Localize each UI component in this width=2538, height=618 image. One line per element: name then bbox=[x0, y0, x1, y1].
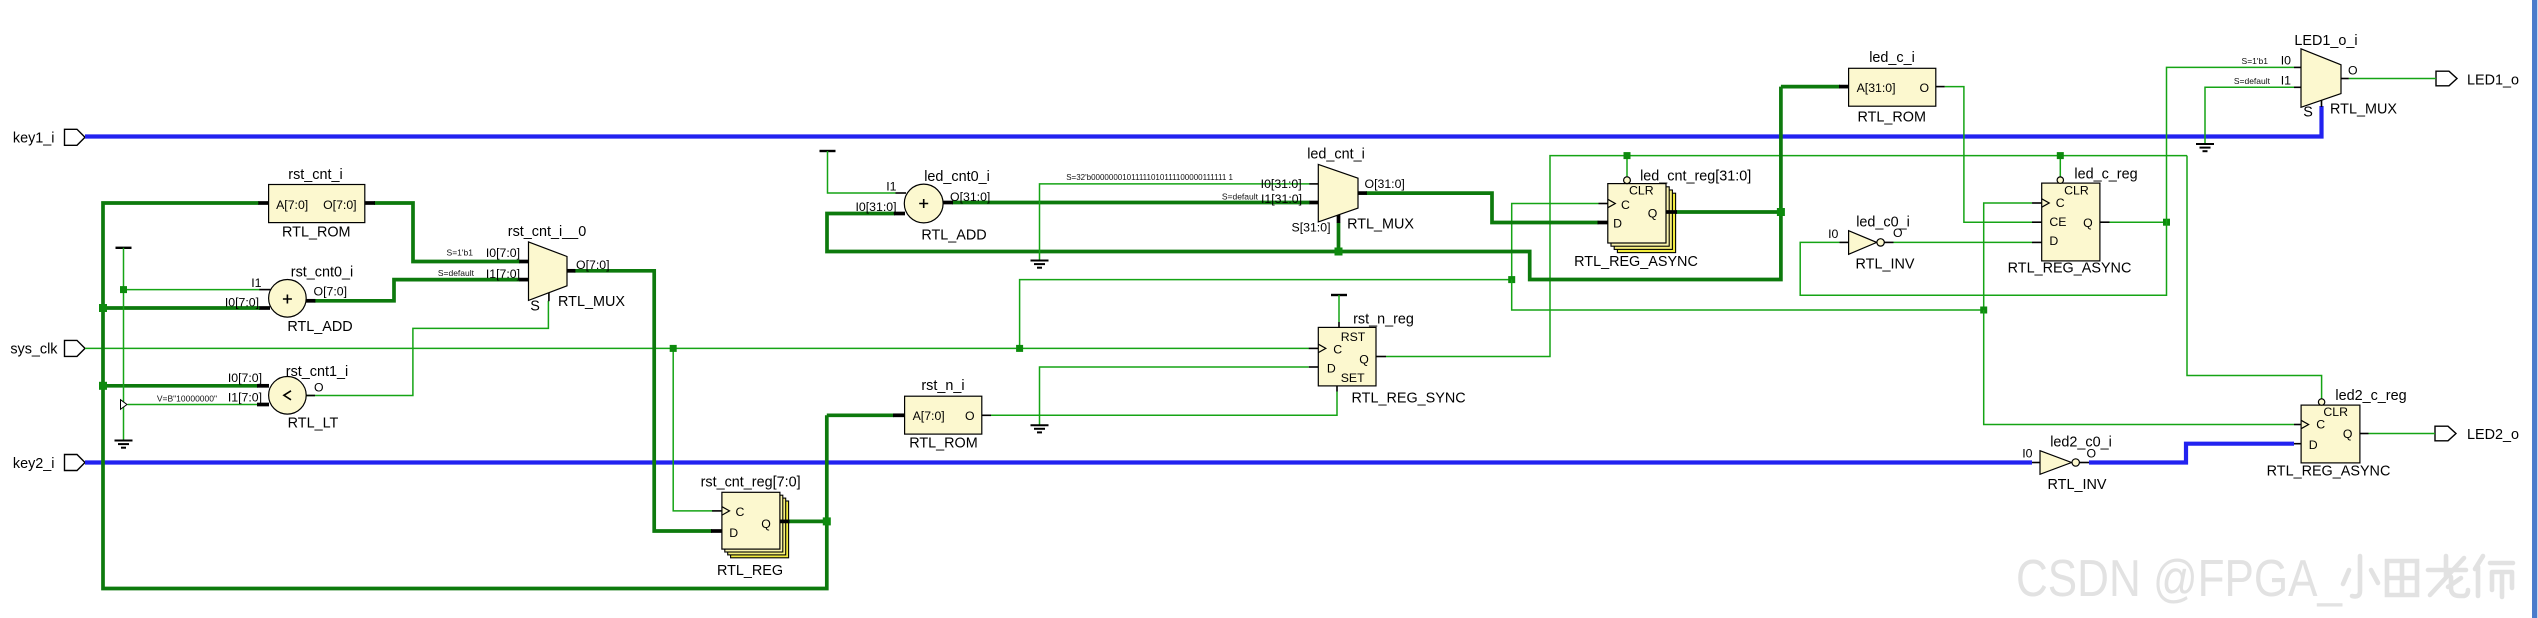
svg-text:CLR: CLR bbox=[2323, 405, 2348, 419]
input port sys_clk bbox=[10, 340, 85, 357]
register led2_c_reg bbox=[2267, 388, 2407, 480]
wire led_cnt to led_cnt_i mux S bbox=[1337, 223, 1341, 252]
svg-text:RTL_MUX: RTL_MUX bbox=[1347, 217, 1414, 233]
wire rst_cnt_i__0 mux O to rst_cnt_reg D bbox=[575, 271, 713, 531]
svg-text:I0[31:0]: I0[31:0] bbox=[855, 200, 896, 214]
wire led_cnt_i mux O to led_cnt_reg D bbox=[1366, 193, 1599, 222]
svg-text:I0[7:0]: I0[7:0] bbox=[486, 246, 520, 260]
wire led_cnt feedback from led_cnt_reg Q bbox=[827, 87, 1781, 280]
comparator rst_cnt1_i pin stubs bbox=[257, 386, 315, 405]
svg-text:O: O bbox=[1893, 226, 1903, 240]
wire led2_c_reg Q to LED2_o port bbox=[2369, 433, 2436, 435]
svg-text:I1[7:0]: I1[7:0] bbox=[228, 390, 262, 404]
svg-text:key1_i: key1_i bbox=[13, 131, 55, 147]
junction rst_cnt Q bbox=[823, 517, 831, 525]
register rst_cnt_reg[7:0] pin stubs bbox=[711, 511, 790, 531]
wire rst_cnt to rst_cnt1_i I0 bbox=[103, 384, 258, 388]
svg-text:O: O bbox=[314, 381, 324, 395]
adder led_cnt0_i pin stubs bbox=[894, 193, 953, 214]
svg-text:led_c_reg: led_c_reg bbox=[2074, 167, 2137, 183]
svg-text:D: D bbox=[729, 526, 738, 540]
wire constant column to ground bbox=[123, 248, 125, 440]
svg-text:rst_cnt_i__0: rst_cnt_i__0 bbox=[508, 224, 586, 240]
ROM rst_n_i bbox=[905, 378, 982, 452]
svg-text:I1: I1 bbox=[2281, 74, 2291, 88]
adder rst_cnt0_i pin stubs bbox=[259, 290, 315, 308]
svg-text:RTL_MUX: RTL_MUX bbox=[558, 294, 625, 310]
svg-text:O[7:0]: O[7:0] bbox=[323, 198, 357, 212]
svg-text:rst_n_i: rst_n_i bbox=[921, 378, 964, 394]
ground for rst_n_reg D bbox=[1031, 425, 1049, 432]
svg-text:O: O bbox=[2348, 64, 2358, 78]
wire led_c feedback to inverter bbox=[1800, 222, 2166, 295]
wire sys_clk branch to rst_cnt_reg C bbox=[673, 348, 712, 511]
register rst_n_reg pin stubs bbox=[1309, 322, 1386, 392]
svg-text:S: S bbox=[2303, 105, 2313, 121]
ROM rst_n_i pin stubs bbox=[893, 413, 991, 417]
svg-text:rst_cnt1_i: rst_cnt1_i bbox=[286, 364, 348, 380]
svg-text:S: S bbox=[530, 299, 540, 315]
register rst_n_reg bbox=[1318, 312, 1465, 407]
svg-text:rst_cnt0_i: rst_cnt0_i bbox=[291, 265, 353, 281]
adder led_cnt0_i bbox=[855, 169, 990, 244]
adder rst_cnt0_i bbox=[225, 265, 353, 336]
junction CLR at led_cnt_reg bbox=[1624, 152, 1631, 159]
svg-text:rst_cnt_i: rst_cnt_i bbox=[288, 167, 342, 183]
junction rst_cnt at adder bbox=[99, 304, 107, 312]
wire ground constant to led_cnt_i mux I0 bbox=[1040, 184, 1311, 260]
svg-text:O[7:0]: O[7:0] bbox=[314, 285, 348, 299]
svg-text:D: D bbox=[1613, 217, 1622, 231]
svg-text:RTL_REG_ASYNC: RTL_REG_ASYNC bbox=[2008, 260, 2132, 276]
wire led_c to LED1_o_i mux I0 bbox=[2167, 67, 2295, 222]
wire rst_n_reg Q to CLR distribution bbox=[1386, 156, 2187, 357]
register led_cnt_reg[31:0] pin stubs bbox=[1598, 204, 1678, 223]
svg-text:I0: I0 bbox=[1828, 227, 1838, 241]
svg-text:C: C bbox=[736, 505, 745, 519]
svg-text:C: C bbox=[2316, 418, 2325, 432]
svg-text:RTL_MUX: RTL_MUX bbox=[2330, 102, 2397, 118]
svg-text:S=1'b1: S=1'b1 bbox=[2242, 56, 2269, 66]
svg-text:RTL_ROM: RTL_ROM bbox=[1857, 110, 1926, 126]
wire rst_cnt_i ROM O to mux I0 bbox=[374, 203, 520, 262]
svg-text:RTL_REG_SYNC: RTL_REG_SYNC bbox=[1352, 391, 1466, 407]
svg-text:Q: Q bbox=[1648, 207, 1658, 221]
wire constant 1 to rst_cnt0_i I1 bbox=[124, 289, 261, 291]
svg-text:RTL_ROM: RTL_ROM bbox=[282, 224, 351, 240]
wire rst_cnt to rst_cnt0_i I0 bbox=[103, 306, 260, 310]
svg-text:RTL_INV: RTL_INV bbox=[1856, 257, 1915, 273]
svg-text:rst_cnt_reg[7:0]: rst_cnt_reg[7:0] bbox=[701, 475, 801, 491]
junction rst_cnt at comparator bbox=[99, 382, 107, 390]
wire ground constant to LED1_o_i mux I1 bbox=[2205, 87, 2294, 143]
inverter led2_c0_i pin stubs bbox=[2032, 462, 2089, 464]
svg-text:S=32'b000000010111110101111000: S=32'b00000001011111010111100000111111 1 bbox=[1066, 173, 1233, 182]
wire CLR to led_cnt_reg bbox=[1626, 156, 1628, 177]
svg-text:key2_i: key2_i bbox=[13, 456, 55, 472]
svg-text:A[7:0]: A[7:0] bbox=[913, 409, 945, 423]
svg-text:CE: CE bbox=[2049, 215, 2066, 229]
svg-text:I1: I1 bbox=[251, 276, 261, 290]
mux rst_cnt_i__0 bbox=[438, 224, 626, 315]
svg-text:RTL_ADD: RTL_ADD bbox=[921, 228, 986, 244]
svg-text:sys_clk: sys_clk bbox=[10, 342, 58, 358]
svg-text:C: C bbox=[1621, 198, 1630, 212]
svg-text:RTL_ROM: RTL_ROM bbox=[909, 436, 978, 452]
svg-text:O[7:0]: O[7:0] bbox=[576, 258, 610, 272]
svg-text:D: D bbox=[2049, 234, 2058, 248]
svg-text:O: O bbox=[2087, 446, 2097, 460]
wire sys_clk to led_c_reg C bbox=[1984, 203, 2032, 310]
ROM led_c_i bbox=[1849, 50, 1936, 126]
wire rst_cnt1_i O to rst_cnt_i__0 mux S bbox=[306, 301, 548, 396]
input port key2_i bbox=[13, 455, 85, 473]
wire led_c_i O to led_c_reg CE bbox=[1945, 87, 2032, 223]
wire led_c0 inverter output to led_c_reg D bbox=[1894, 241, 2033, 243]
ROM rst_cnt_i bbox=[269, 167, 365, 240]
wire CLR to led2_c_reg bbox=[2187, 156, 2322, 399]
wire led_cnt0_i O to led_cnt_i mux I1 bbox=[952, 201, 1310, 205]
wire sys_clk horizontal bbox=[85, 347, 1309, 349]
mux rst_cnt_i__0 pin stubs bbox=[519, 262, 575, 302]
junction led_cnt at mux select bbox=[1335, 248, 1343, 256]
inverter led_c0_i pin stubs bbox=[1840, 241, 1894, 243]
svg-text:Q: Q bbox=[1359, 353, 1369, 367]
svg-text:I0[31:0]: I0[31:0] bbox=[1261, 177, 1302, 191]
svg-text:I1[31:0]: I1[31:0] bbox=[1261, 192, 1302, 206]
constant value marker V=B"10000000" bbox=[121, 400, 128, 410]
watermark CSDN @FPGA_xiaotianlaoshi bbox=[2016, 550, 2513, 608]
junction sys_clk at rst_cnt_reg branch bbox=[670, 345, 677, 352]
svg-text:led2_c0_i: led2_c0_i bbox=[2050, 435, 2112, 451]
svg-text:I0[7:0]: I0[7:0] bbox=[225, 295, 259, 309]
svg-text:led_cnt_reg[31:0]: led_cnt_reg[31:0] bbox=[1640, 169, 1751, 185]
svg-text:led_c_i: led_c_i bbox=[1869, 50, 1915, 66]
right border bar bbox=[2532, 0, 2537, 618]
svg-text:O: O bbox=[965, 409, 975, 423]
ground for rst constant column bbox=[115, 441, 133, 448]
svg-text:D: D bbox=[1327, 362, 1336, 376]
svg-text:RTL_REG: RTL_REG bbox=[717, 563, 783, 579]
svg-text:Q: Q bbox=[761, 517, 771, 531]
svg-text:RST: RST bbox=[1341, 330, 1366, 344]
svg-text:rst_n_reg: rst_n_reg bbox=[1353, 312, 1414, 328]
junction led_cnt Q bbox=[1777, 208, 1785, 216]
junction sys_clk at rst_n_reg branch bbox=[1016, 345, 1023, 352]
wire led2_c0 (blue) INV output to led2_c_reg D bbox=[2089, 444, 2294, 463]
svg-text:CLR: CLR bbox=[2064, 184, 2089, 198]
svg-text:O[31:0]: O[31:0] bbox=[950, 190, 990, 204]
junction sys_clk distribution bbox=[1508, 276, 1515, 283]
svg-text:O: O bbox=[1920, 81, 1930, 95]
svg-text:S=default: S=default bbox=[2234, 76, 2271, 86]
register rst_cnt_reg[7:0] bbox=[701, 475, 801, 580]
vcc tie T-bar for rst constants bbox=[116, 247, 132, 249]
svg-text:D: D bbox=[2309, 438, 2318, 452]
svg-text:led2_c_reg: led2_c_reg bbox=[2335, 388, 2406, 404]
svg-text:A[31:0]: A[31:0] bbox=[1857, 81, 1896, 95]
wire sys_clk riser to upper distribution bbox=[1020, 280, 1512, 349]
ground for LED1_o_i mux I1 bbox=[2196, 144, 2214, 151]
inverter led_c0_i bbox=[1828, 215, 1915, 273]
input port key1_i bbox=[13, 129, 85, 146]
register led_c_reg pin stubs bbox=[2032, 203, 2110, 242]
wire rst_n_i O to rst_n_reg SET bbox=[991, 392, 1337, 416]
svg-text:I1[7:0]: I1[7:0] bbox=[486, 267, 520, 281]
svg-text:RTL_REG_ASYNC: RTL_REG_ASYNC bbox=[2267, 464, 2391, 480]
vcc tie T-bar for led_cnt0_i I1 bbox=[820, 150, 836, 152]
svg-text:O[31:0]: O[31:0] bbox=[1365, 177, 1405, 191]
ground for led_cnt_i mux I0 bbox=[1031, 261, 1049, 268]
svg-text:Q: Q bbox=[2343, 427, 2353, 441]
mux led_cnt_i bbox=[1066, 147, 1414, 235]
svg-text:A[7:0]: A[7:0] bbox=[276, 198, 308, 212]
vcc tie T-bar for rst_n_reg RST bbox=[1331, 295, 1347, 322]
wire rst_cnt to rst_n_i A bbox=[827, 413, 894, 417]
svg-text:RTL_ADD: RTL_ADD bbox=[287, 319, 352, 335]
wire CLR to led_c_reg bbox=[2059, 156, 2061, 177]
svg-text:CLR: CLR bbox=[1629, 184, 1654, 198]
svg-text:C: C bbox=[1333, 343, 1342, 357]
svg-text:RTL_LT: RTL_LT bbox=[288, 416, 339, 432]
wire sys_clk lower distribution bbox=[1512, 280, 1984, 310]
svg-text:V=B"10000000": V=B"10000000" bbox=[157, 394, 217, 404]
svg-text:SET: SET bbox=[1341, 371, 1365, 385]
wire LED1_o_i mux O to output port bbox=[2349, 78, 2436, 80]
wire key2_i (blue) to led2_c0_i input bbox=[85, 460, 2032, 464]
register led_cnt_reg[31:0] bbox=[1574, 169, 1751, 271]
ROM led_c_i pin stubs bbox=[1839, 85, 1945, 89]
wire constant 1 to led_cnt0_i I1 bbox=[828, 151, 896, 193]
svg-text:I0[7:0]: I0[7:0] bbox=[228, 371, 262, 385]
junction CLR at led_c_reg bbox=[2057, 152, 2064, 159]
svg-text:LED2_o: LED2_o bbox=[2467, 427, 2519, 443]
wire constant to rst_cnt1_i I1 bbox=[128, 404, 259, 406]
output port LED1_o bbox=[2436, 71, 2519, 88]
svg-text:Q: Q bbox=[2083, 216, 2093, 230]
svg-text:I1: I1 bbox=[886, 180, 896, 194]
svg-text:S=default: S=default bbox=[1222, 192, 1259, 202]
wire key1_i (blue) to LED1_o_i mux S bbox=[85, 106, 2322, 137]
svg-text:I0: I0 bbox=[2022, 447, 2032, 461]
svg-text:S=1'b1: S=1'b1 bbox=[447, 248, 474, 258]
svg-text:S[31:0]: S[31:0] bbox=[1292, 221, 1331, 235]
mux LED1_o_i pin stubs bbox=[2294, 67, 2349, 107]
svg-text:led_cnt0_i: led_cnt0_i bbox=[924, 169, 990, 185]
wire led_c from led_c_reg Q bbox=[2110, 221, 2167, 223]
comparator rst_cnt1_i bbox=[157, 364, 348, 432]
wire sys_clk to led2_c_reg C bbox=[1984, 310, 2294, 425]
mux led_cnt_i pin stubs bbox=[1309, 184, 1367, 223]
wire rst_n_reg D tied low bbox=[1040, 367, 1309, 425]
junction led_c at Q bbox=[2163, 219, 2170, 226]
wire rst_cnt_reg Q feedback loop bbox=[103, 203, 827, 589]
svg-text:CSDN @FPGA_: CSDN @FPGA_ bbox=[2016, 550, 2343, 608]
svg-text:S=default: S=default bbox=[438, 268, 475, 278]
register led_c_reg bbox=[2008, 167, 2138, 277]
junction constant at adder I1 bbox=[120, 286, 127, 293]
svg-text:RTL_INV: RTL_INV bbox=[2048, 477, 2107, 493]
svg-text:I0: I0 bbox=[2281, 54, 2291, 68]
svg-text:LED1_o_i: LED1_o_i bbox=[2294, 33, 2357, 49]
wire rst_cnt0_i O to mux I1 bbox=[315, 280, 521, 301]
wire sys_clk to led_cnt_reg C bbox=[1512, 204, 1599, 280]
svg-text:LED1_o: LED1_o bbox=[2467, 73, 2519, 89]
register led2_c_reg pin stubs bbox=[2294, 425, 2369, 444]
output port LED2_o bbox=[2435, 426, 2519, 443]
inverter led2_c0_i bbox=[2022, 435, 2112, 494]
svg-text:led_cnt_i: led_cnt_i bbox=[1307, 147, 1365, 163]
svg-text:RTL_REG_ASYNC: RTL_REG_ASYNC bbox=[1574, 254, 1698, 270]
wire led_cnt to led_c_i A bbox=[1781, 85, 1840, 89]
svg-text:C: C bbox=[2056, 196, 2065, 210]
mux LED1_o_i bbox=[2234, 33, 2398, 121]
ROM rst_cnt_i pin stubs bbox=[258, 201, 375, 205]
junction sys_clk right branch bbox=[1980, 307, 1987, 314]
